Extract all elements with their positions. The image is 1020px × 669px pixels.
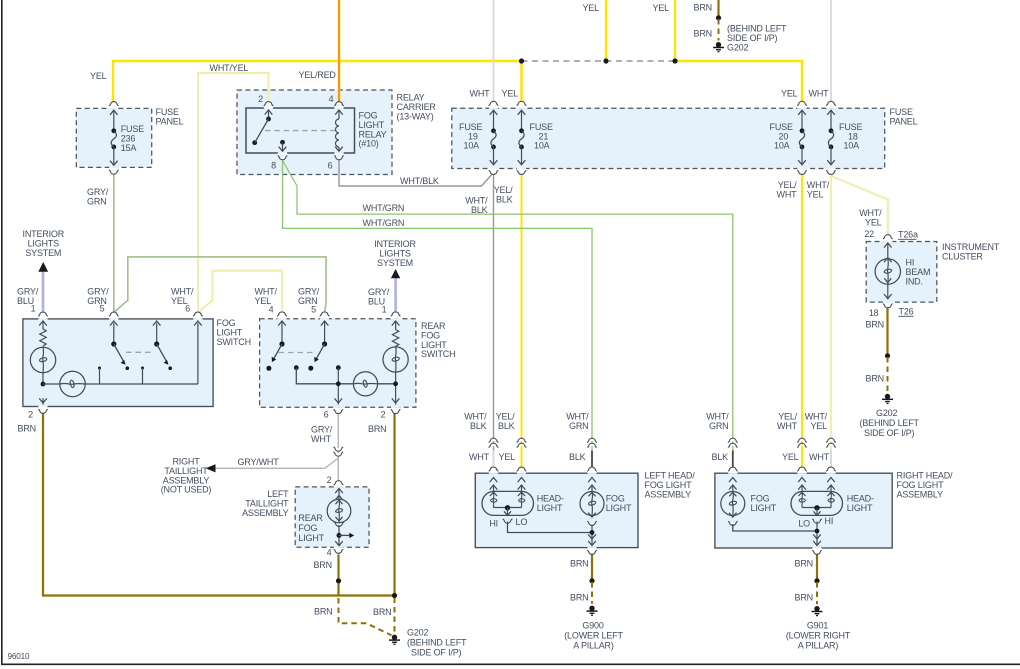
- svg-text:WHT: WHT: [469, 452, 490, 462]
- svg-text:G202: G202: [407, 628, 428, 638]
- svg-text:SIDE OF I/P): SIDE OF I/P): [411, 648, 462, 658]
- svg-text:BRN: BRN: [373, 607, 391, 617]
- svg-text:WHT: WHT: [311, 434, 332, 444]
- svg-text:CLUSTER: CLUSTER: [942, 251, 983, 261]
- svg-text:WHT: WHT: [809, 89, 830, 99]
- svg-text:YEL: YEL: [502, 89, 519, 99]
- svg-text:BRN: BRN: [314, 607, 332, 617]
- svg-text:SWITCH: SWITCH: [217, 337, 251, 347]
- svg-text:WHT/YEL: WHT/YEL: [210, 63, 249, 73]
- svg-text:1: 1: [382, 305, 387, 315]
- svg-text:BLK: BLK: [470, 421, 487, 431]
- svg-text:BLK: BLK: [569, 452, 586, 462]
- svg-text:6: 6: [185, 304, 190, 314]
- svg-text:BRN: BRN: [795, 559, 813, 569]
- svg-text:YEL/RED: YEL/RED: [299, 70, 337, 80]
- svg-text:10A: 10A: [464, 141, 480, 151]
- svg-text:2: 2: [258, 94, 263, 104]
- svg-text:SYSTEM: SYSTEM: [25, 248, 61, 258]
- svg-text:10A: 10A: [844, 141, 860, 151]
- svg-text:LIGHT: LIGHT: [751, 503, 777, 513]
- svg-text:PANEL: PANEL: [156, 116, 184, 126]
- svg-text:G900: G900: [582, 621, 603, 631]
- svg-text:WHT: WHT: [809, 452, 830, 462]
- svg-text:BRN: BRN: [694, 29, 712, 39]
- svg-text:SYSTEM: SYSTEM: [377, 258, 413, 268]
- svg-text:LIGHT: LIGHT: [606, 503, 632, 513]
- svg-text:10A: 10A: [774, 141, 790, 151]
- svg-text:YEL: YEL: [807, 189, 824, 199]
- svg-text:6: 6: [324, 410, 329, 420]
- svg-text:(LOWER RIGHT: (LOWER RIGHT: [786, 631, 851, 641]
- svg-text:ASSEMBLY: ASSEMBLY: [645, 489, 692, 499]
- svg-text:2: 2: [28, 410, 33, 420]
- svg-text:ASSEMBLY: ASSEMBLY: [242, 508, 289, 518]
- svg-text:BRN: BRN: [866, 320, 884, 330]
- svg-text:18: 18: [869, 308, 879, 318]
- svg-text:T26a: T26a: [898, 230, 918, 240]
- svg-text:YEL: YEL: [653, 3, 670, 13]
- svg-text:BLK: BLK: [498, 421, 515, 431]
- svg-text:BLK: BLK: [712, 452, 729, 462]
- svg-text:LO: LO: [798, 519, 810, 529]
- svg-text:5: 5: [311, 305, 316, 315]
- svg-text:2: 2: [381, 410, 386, 420]
- svg-text:YEL: YEL: [865, 217, 882, 227]
- svg-text:GRN: GRN: [709, 421, 728, 431]
- svg-text:YEL: YEL: [782, 452, 799, 462]
- svg-text:HI: HI: [825, 516, 834, 526]
- svg-text:LIGHT: LIGHT: [298, 533, 324, 543]
- svg-text:LO: LO: [516, 517, 528, 527]
- svg-text:WHT/GRN: WHT/GRN: [363, 203, 405, 213]
- svg-text:SIDE OF I/P): SIDE OF I/P): [727, 33, 778, 43]
- svg-text:YEL: YEL: [583, 3, 600, 13]
- svg-text:WHT: WHT: [470, 89, 491, 99]
- svg-text:1: 1: [31, 304, 36, 314]
- svg-text:(BEHIND LEFT: (BEHIND LEFT: [727, 24, 787, 34]
- svg-text:WHT/GRN: WHT/GRN: [363, 218, 405, 228]
- svg-text:22: 22: [864, 229, 874, 239]
- svg-text:15A: 15A: [121, 143, 137, 153]
- svg-text:GRY/WHT: GRY/WHT: [238, 457, 280, 467]
- svg-text:BRN: BRN: [866, 374, 884, 384]
- svg-text:BRN: BRN: [314, 560, 332, 570]
- svg-text:BRN: BRN: [694, 3, 712, 13]
- svg-text:PANEL: PANEL: [890, 116, 918, 126]
- svg-text:G202: G202: [727, 43, 748, 53]
- svg-text:WHT/BLK: WHT/BLK: [400, 176, 439, 186]
- svg-text:IND.: IND.: [906, 276, 923, 286]
- svg-text:8: 8: [271, 161, 276, 171]
- svg-text:G901: G901: [807, 621, 828, 631]
- svg-text:(13-WAY): (13-WAY): [397, 111, 434, 121]
- svg-text:A PILLAR): A PILLAR): [798, 641, 839, 651]
- svg-text:BRN: BRN: [795, 593, 813, 603]
- svg-text:(LOWER LEFT: (LOWER LEFT: [564, 631, 623, 641]
- svg-text:BRN: BRN: [570, 559, 588, 569]
- svg-text:(NOT USED): (NOT USED): [161, 485, 212, 495]
- svg-text:WHT: WHT: [777, 421, 798, 431]
- svg-text:SWITCH: SWITCH: [421, 349, 455, 359]
- svg-text:YEL: YEL: [90, 71, 107, 81]
- svg-text:(#10): (#10): [359, 139, 379, 149]
- svg-text:HI: HI: [489, 519, 498, 529]
- svg-text:YEL: YEL: [499, 452, 516, 462]
- svg-text:BRN: BRN: [368, 424, 386, 434]
- svg-text:4: 4: [269, 305, 274, 315]
- svg-text:WHT: WHT: [777, 189, 798, 199]
- svg-text:ASSEMBLY: ASSEMBLY: [897, 489, 944, 499]
- svg-text:BRN: BRN: [18, 424, 36, 434]
- svg-text:(BEHIND LEFT: (BEHIND LEFT: [407, 638, 467, 648]
- svg-text:10A: 10A: [534, 141, 550, 151]
- svg-text:GRN: GRN: [87, 196, 106, 206]
- svg-text:T26: T26: [899, 307, 914, 317]
- svg-text:BLK: BLK: [471, 205, 488, 215]
- svg-text:FOG: FOG: [298, 523, 317, 533]
- svg-text:YEL: YEL: [811, 421, 828, 431]
- svg-text:6: 6: [328, 161, 333, 171]
- svg-text:LIGHT: LIGHT: [537, 503, 563, 513]
- svg-text:4: 4: [327, 548, 332, 558]
- svg-text:YEL: YEL: [781, 89, 798, 99]
- svg-text:BRN: BRN: [570, 593, 588, 603]
- svg-text:GRN: GRN: [569, 421, 588, 431]
- svg-text:2: 2: [327, 475, 332, 485]
- svg-text:4: 4: [329, 94, 334, 104]
- svg-text:(BEHIND LEFT: (BEHIND LEFT: [860, 418, 920, 428]
- svg-text:REAR: REAR: [298, 513, 323, 523]
- svg-text:BLK: BLK: [496, 194, 513, 204]
- svg-text:G202: G202: [876, 408, 897, 418]
- svg-text:LIGHT: LIGHT: [847, 503, 873, 513]
- svg-text:5: 5: [100, 304, 105, 314]
- svg-text:A PILLAR): A PILLAR): [573, 641, 614, 651]
- svg-text:SIDE OF I/P): SIDE OF I/P): [864, 428, 915, 438]
- svg-text:96010: 96010: [8, 652, 30, 661]
